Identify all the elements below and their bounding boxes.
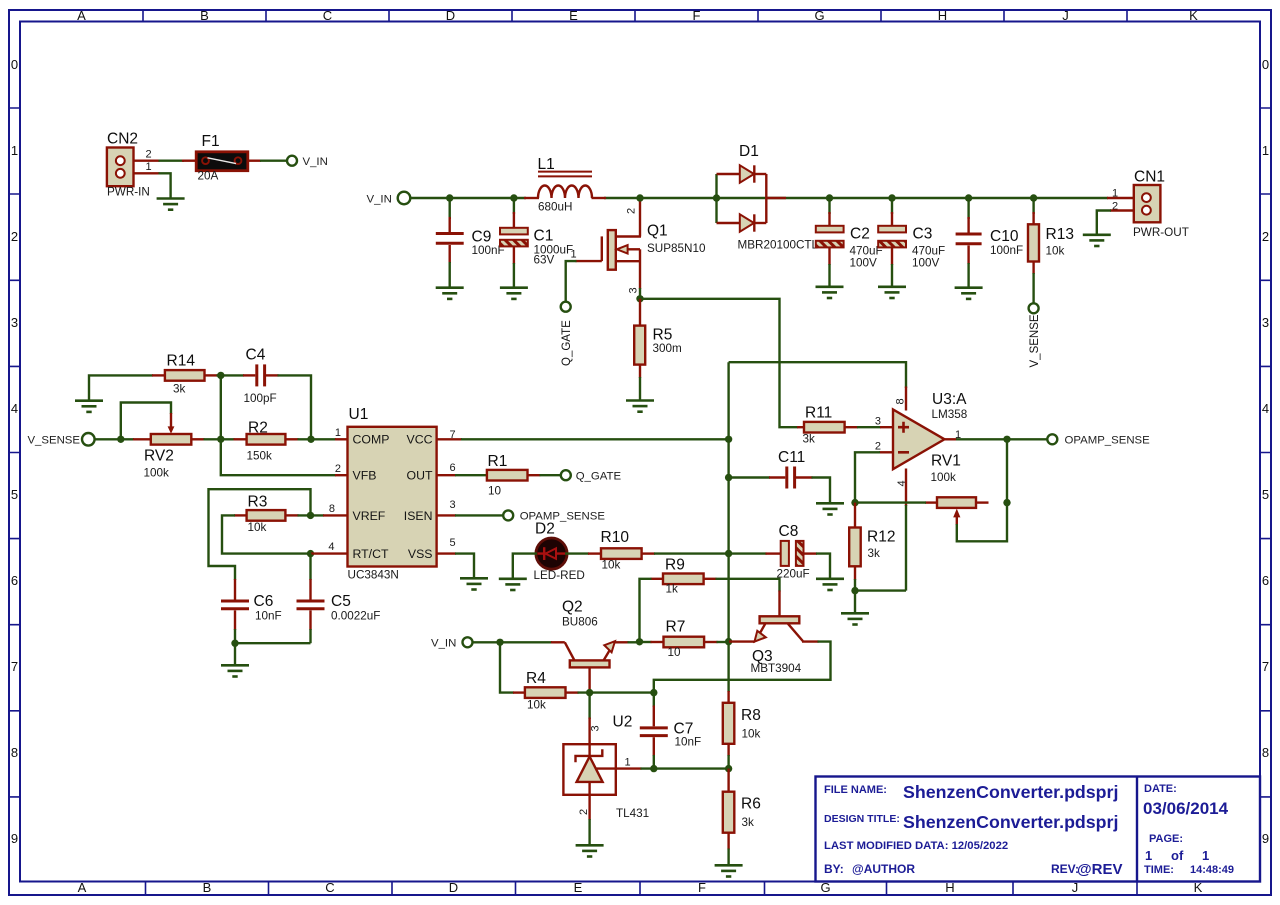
node V_SENSE/RV2 wiper	[117, 436, 124, 443]
op-amp U1 (UC3843N)	[348, 406, 437, 582]
svg-text:8: 8	[895, 398, 907, 404]
node output/RV1	[1003, 436, 1010, 443]
svg-text:DESIGN TITLE:: DESIGN TITLE:	[824, 813, 900, 825]
resistor R6	[723, 769, 761, 865]
svg-text:8: 8	[11, 745, 18, 760]
wire node to ground	[234, 643, 236, 664]
svg-text:MBT3904: MBT3904	[751, 662, 802, 675]
wire feedback vertical (R14/C4 to R2 row)	[220, 375, 222, 440]
wire pin2 to R12 top node	[855, 452, 880, 503]
node VCC/C11	[725, 474, 732, 481]
node R12 bottom	[851, 587, 858, 594]
svg-text:3: 3	[628, 287, 640, 293]
resistor R2	[234, 420, 299, 463]
svg-text:8: 8	[329, 503, 335, 515]
svg-text:0: 0	[11, 57, 18, 72]
node R12/RV1/pin2	[851, 499, 858, 506]
svg-text:ShenzenConverter.pdsprj: ShenzenConverter.pdsprj	[903, 812, 1118, 832]
svg-text:BU806: BU806	[562, 616, 598, 629]
ground (R6)	[715, 865, 743, 876]
ground (R12)	[841, 613, 869, 624]
svg-text:V_IN: V_IN	[367, 193, 392, 205]
svg-text:RV2: RV2	[144, 448, 174, 465]
node C7/U2 cathode	[650, 689, 657, 696]
ground (R5)	[626, 401, 654, 412]
svg-text:R6: R6	[741, 796, 761, 813]
svg-text:V_SENSE: V_SENSE	[1029, 314, 1041, 367]
svg-text:10nF: 10nF	[255, 610, 282, 623]
svg-text:B: B	[200, 8, 209, 23]
svg-text:100k: 100k	[144, 467, 170, 480]
U1 pin 2 stub	[335, 474, 348, 476]
svg-text:C6: C6	[254, 593, 274, 610]
U1 pin 4 stub	[311, 552, 348, 554]
wire ground to R14	[89, 375, 153, 400]
wire VFB row	[221, 439, 336, 475]
U1 pin 7 stub	[437, 438, 462, 440]
node VCC/pin7	[725, 436, 732, 443]
svg-text:4: 4	[11, 401, 18, 416]
wire RV1 left to R12 node	[855, 501, 926, 503]
svg-text:VFB: VFB	[353, 469, 377, 483]
fuse F1	[196, 133, 248, 183]
svg-text:1: 1	[1262, 143, 1269, 158]
svg-text:0.0022uF: 0.0022uF	[331, 610, 380, 623]
svg-text:@REV: @REV	[1077, 861, 1122, 878]
wire CN1.2 to ground	[1097, 211, 1111, 235]
svg-text:U3:A: U3:A	[932, 391, 967, 408]
svg-text:1: 1	[11, 143, 18, 158]
svg-text:2: 2	[626, 208, 638, 214]
wire Q1 source to node	[639, 288, 641, 299]
wire Q3 collector loop to Q2 base node	[654, 642, 831, 693]
resistor R1	[487, 453, 541, 498]
svg-text:3: 3	[590, 725, 602, 731]
svg-text:@AUTHOR: @AUTHOR	[852, 862, 915, 876]
svg-text:R11: R11	[805, 405, 832, 422]
wire pin3 to OPAMP_SENSE terminal	[455, 514, 503, 516]
svg-text:E: E	[569, 8, 578, 23]
svg-text:7: 7	[11, 659, 18, 674]
U1 pin 5 stub	[437, 552, 456, 554]
svg-text:C2: C2	[850, 226, 870, 243]
svg-text:F: F	[698, 880, 706, 895]
terminal Q_GATE (U1 out)	[561, 470, 571, 480]
terminal Q_GATE	[561, 302, 571, 312]
svg-text:6: 6	[11, 573, 18, 588]
ground (C6/C5)	[221, 665, 249, 676]
terminal V_SENSE (left)	[82, 433, 95, 446]
svg-text:2: 2	[875, 441, 881, 453]
svg-text:A: A	[77, 8, 86, 23]
svg-text:150k: 150k	[247, 450, 273, 463]
svg-text:OPAMP_SENSE: OPAMP_SENSE	[520, 511, 606, 523]
svg-text:Q1: Q1	[647, 223, 668, 240]
svg-text:2: 2	[335, 463, 341, 475]
wire main rail left	[411, 197, 527, 199]
transistor Q2 (BU806)	[551, 599, 629, 694]
svg-text:V_SENSE: V_SENSE	[27, 435, 80, 447]
svg-text:R13: R13	[1046, 226, 1074, 243]
svg-text:K: K	[1189, 8, 1198, 23]
svg-text:COMP: COMP	[353, 433, 390, 447]
voltage reference U2 (TL431)	[563, 693, 649, 845]
svg-text:C3: C3	[913, 226, 933, 243]
svg-text:3k: 3k	[868, 547, 881, 560]
resistor R13	[1028, 198, 1074, 303]
wire R3 right to VREF pin	[298, 514, 325, 516]
ground (U2)	[576, 845, 604, 856]
svg-text:100pF: 100pF	[244, 392, 277, 405]
svg-text:R1: R1	[488, 453, 508, 470]
svg-text:8: 8	[1262, 745, 1269, 760]
terminal V_IN (fuse output)	[287, 156, 297, 166]
svg-text:220uF: 220uF	[777, 568, 810, 581]
wire CN2.2 to F1	[159, 159, 185, 161]
svg-text:100V: 100V	[850, 257, 878, 270]
transistor Q3 (MBT3904)	[729, 591, 819, 675]
node rail/C3	[888, 194, 895, 201]
svg-text:4: 4	[896, 480, 908, 486]
potentiometer RV2	[144, 413, 205, 480]
potentiometer RV1	[925, 453, 989, 526]
svg-text:3k: 3k	[742, 816, 755, 829]
wire R9 right to Q3 base	[716, 579, 780, 592]
ground (CN2 pin1)	[157, 199, 185, 210]
svg-text:0: 0	[1262, 57, 1269, 72]
wire R1 to Q_GATE terminal	[540, 474, 561, 476]
svg-text:10k: 10k	[742, 728, 761, 741]
svg-text:B: B	[203, 880, 212, 895]
svg-text:E: E	[574, 880, 583, 895]
svg-text:R10: R10	[601, 529, 630, 546]
svg-text:REV:: REV:	[1051, 862, 1079, 876]
svg-text:10: 10	[668, 646, 682, 659]
node RT/CT	[307, 550, 314, 557]
svg-text:FILE NAME:: FILE NAME:	[824, 784, 887, 796]
wire source node to sense branch	[640, 299, 798, 427]
U3 pin 1 stub	[945, 438, 958, 440]
svg-text:LM358: LM358	[932, 408, 968, 421]
ground (C10)	[955, 288, 983, 299]
svg-text:2: 2	[1262, 229, 1269, 244]
terminal V_SENSE (bottom of R13)	[1029, 303, 1039, 313]
svg-text:10k: 10k	[248, 521, 267, 534]
resistor R14	[152, 353, 218, 396]
U3 pin 3 stub	[880, 426, 893, 428]
wire output to OPAMP_SENSE	[956, 438, 1047, 440]
svg-text:C: C	[323, 8, 332, 23]
node rail/C2	[826, 194, 833, 201]
wire Q1 gate to Q_GATE terminal	[566, 261, 577, 301]
wire pin6 to R1	[455, 474, 488, 476]
resistor R4	[513, 670, 579, 712]
resistor R5	[634, 299, 682, 400]
svg-text:63V: 63V	[534, 254, 555, 267]
node RV2/R2/VFB	[217, 436, 224, 443]
ground (CN1 pin2)	[1083, 235, 1111, 246]
svg-text:MBR20100CTL: MBR20100CTL	[738, 239, 819, 252]
connector CN2	[107, 131, 150, 199]
svg-text:2: 2	[146, 149, 152, 161]
svg-text:100nF: 100nF	[990, 244, 1023, 257]
svg-text:9: 9	[1262, 831, 1269, 846]
svg-text:10k: 10k	[527, 699, 546, 712]
wire C8 to ground	[816, 554, 830, 578]
wire C4 to COMP node	[278, 375, 312, 440]
wire D2 cathode to ground	[513, 554, 537, 578]
resistor R7	[651, 619, 718, 660]
svg-text:C10: C10	[990, 228, 1019, 245]
svg-text:DATE:: DATE:	[1144, 783, 1177, 795]
capacitor C3 (electrolytic)	[878, 198, 945, 286]
svg-text:CN1: CN1	[1134, 169, 1165, 186]
wire V_SENSE to RV2	[95, 438, 134, 440]
svg-text:U2: U2	[613, 714, 633, 731]
node VCC/R10/C8	[725, 550, 732, 557]
ground (C2)	[816, 287, 844, 298]
svg-text:RV1: RV1	[931, 453, 961, 470]
terminal OPAMP_SENSE (U1)	[503, 510, 513, 520]
wire pin5 to ground	[455, 554, 474, 578]
node R8/R6	[725, 765, 732, 772]
svg-text:R2: R2	[248, 420, 268, 437]
U3 pin 8 stub	[905, 387, 907, 411]
CN1 pin 2 stub	[1110, 209, 1134, 211]
capacitor C1 (electrolytic)	[500, 198, 573, 287]
wire R11 to op-amp pin3	[857, 426, 881, 428]
svg-text:OPAMP_SENSE: OPAMP_SENSE	[1065, 435, 1151, 447]
U3 pin 4 stub	[905, 469, 907, 507]
wire C5 to C6 ground node	[235, 642, 311, 644]
svg-text:ShenzenConverter.pdsprj: ShenzenConverter.pdsprj	[903, 782, 1118, 802]
wire VREF to C6 loop	[209, 489, 311, 580]
svg-text:PWR-IN: PWR-IN	[107, 186, 150, 199]
inductor L1	[524, 156, 606, 214]
wire R2 to U1 COMP	[298, 438, 337, 440]
svg-text:7: 7	[1262, 659, 1269, 674]
node R14/C4/feedback	[217, 372, 224, 379]
svg-text:4: 4	[1262, 401, 1269, 416]
F1 right stub	[248, 159, 261, 161]
wire R14 to C4	[217, 374, 245, 376]
svg-text:H: H	[938, 8, 947, 23]
svg-text:R12: R12	[867, 529, 895, 546]
U1 pin 8 stub	[323, 514, 348, 516]
svg-text:R3: R3	[248, 494, 268, 511]
ground (U1 VSS)	[460, 578, 488, 589]
U1 pin 3 stub	[437, 514, 456, 516]
svg-text:4: 4	[328, 541, 334, 553]
svg-text:F1: F1	[202, 133, 220, 150]
svg-text:PAGE:: PAGE:	[1149, 833, 1183, 845]
svg-text:1: 1	[1145, 848, 1152, 863]
svg-text:C4: C4	[246, 347, 266, 364]
transistor Q1 (MOSFET SUP85N10)	[576, 202, 706, 290]
resistor R11	[797, 405, 858, 446]
node C6/C5 ground	[231, 640, 238, 647]
svg-text:03/06/2014: 03/06/2014	[1143, 799, 1229, 818]
ground (C1)	[500, 288, 528, 299]
wire Q2 emitter to node	[628, 641, 641, 643]
svg-text:ISEN: ISEN	[404, 509, 433, 523]
svg-text:G: G	[814, 8, 824, 23]
ground (C9)	[436, 288, 464, 299]
svg-text:D: D	[449, 880, 458, 895]
node Q2/R9/R7	[636, 638, 643, 645]
svg-text:3: 3	[450, 499, 456, 511]
svg-text:C11: C11	[778, 449, 805, 466]
svg-text:1: 1	[146, 161, 152, 173]
svg-text:R9: R9	[665, 557, 685, 574]
node rail/Q1 drain	[636, 194, 643, 201]
svg-text:R8: R8	[741, 707, 761, 724]
svg-text:3k: 3k	[803, 433, 816, 446]
node R2/C4/COMP	[307, 436, 314, 443]
svg-text:D: D	[446, 8, 455, 23]
wire node to ground	[854, 591, 856, 613]
node rail/D1	[713, 194, 720, 201]
connector CN1	[1133, 169, 1189, 240]
svg-text:R4: R4	[526, 670, 546, 687]
svg-text:100k: 100k	[931, 471, 957, 484]
svg-text:CN2: CN2	[107, 131, 138, 148]
wire RV1 wiper loop	[957, 503, 1007, 542]
svg-text:10: 10	[488, 485, 502, 498]
node rail/C1	[510, 194, 517, 201]
svg-text:Q2: Q2	[562, 599, 583, 616]
svg-text:1: 1	[571, 249, 577, 261]
svg-text:3k: 3k	[173, 383, 186, 396]
node RV1 right	[1003, 499, 1010, 506]
wire output node down to RV1 right	[1006, 439, 1008, 503]
wire R4 to Q2 base node	[578, 691, 655, 693]
wire main rail right	[604, 197, 1108, 199]
wire VCC to op-amp pin 8	[729, 362, 906, 388]
svg-text:1: 1	[1202, 848, 1209, 863]
resistor R8	[723, 691, 761, 770]
wire R7 to VCC trunk node	[717, 641, 730, 643]
resistor R10	[588, 529, 655, 572]
svg-text:20A: 20A	[198, 170, 219, 183]
svg-text:LED-RED: LED-RED	[534, 569, 585, 582]
diode D1 (MBR20100CTL dual)	[717, 143, 819, 252]
svg-text:9: 9	[11, 831, 18, 846]
wire R9 left to Q2 emitter node	[640, 579, 652, 642]
svg-text:PWR-OUT: PWR-OUT	[1133, 226, 1189, 239]
svg-text:C: C	[325, 880, 334, 895]
svg-text:Q_GATE: Q_GATE	[576, 470, 622, 482]
wire F1 to V_IN terminal	[260, 159, 287, 161]
terminal V_IN (main rail)	[398, 192, 411, 205]
capacitor C8 (electrolytic)	[729, 523, 817, 581]
svg-text:1: 1	[625, 757, 631, 769]
svg-text:C8: C8	[779, 523, 799, 540]
svg-text:RT/CT: RT/CT	[353, 547, 389, 561]
svg-text:10k: 10k	[1046, 245, 1065, 258]
svg-text:2: 2	[11, 229, 18, 244]
capacitor C4	[243, 347, 279, 406]
svg-text:R14: R14	[167, 353, 196, 370]
resistor R9	[651, 557, 717, 596]
ground (C8)	[816, 579, 844, 590]
svg-text:F: F	[693, 8, 701, 23]
node rail/C9	[446, 194, 453, 201]
wire node down to R4	[500, 642, 514, 692]
wire R12 bottom to op-amp pin4	[855, 589, 906, 591]
node rail/R13	[1030, 194, 1037, 201]
wire VCC vertical trunk	[727, 362, 729, 692]
resistor R3	[234, 494, 299, 535]
svg-text:R7: R7	[666, 619, 686, 636]
wire D2 anode to R10	[565, 552, 589, 554]
svg-text:6: 6	[450, 462, 456, 474]
svg-text:10k: 10k	[602, 559, 621, 572]
CN1 pin 1 stub	[1107, 197, 1134, 199]
node V_IN/R4	[496, 639, 503, 646]
svg-text:U1: U1	[349, 406, 369, 423]
RV2 left stub	[133, 438, 152, 440]
svg-text:D1: D1	[739, 143, 759, 160]
wire RV2 wiper loop	[121, 403, 171, 440]
svg-text:100V: 100V	[912, 257, 940, 270]
capacitor C5	[297, 554, 381, 644]
svg-text:BY:: BY:	[824, 862, 844, 876]
svg-text:6: 6	[1262, 573, 1269, 588]
svg-text:VSS: VSS	[408, 547, 433, 561]
terminal V_IN (bottom)	[463, 637, 473, 647]
svg-text:V_IN: V_IN	[431, 638, 456, 650]
svg-text:SUP85N10: SUP85N10	[647, 242, 706, 255]
wire U2 ref to R8/R6 node	[641, 767, 730, 769]
svg-text:2: 2	[578, 809, 590, 815]
svg-text:VCC: VCC	[407, 433, 433, 447]
svg-text:3: 3	[11, 315, 18, 330]
svg-text:A: A	[78, 880, 87, 895]
svg-text:TL431: TL431	[616, 807, 649, 820]
resistor R12	[849, 503, 895, 592]
node Q2 base/R4	[586, 689, 593, 696]
svg-text:680uH: 680uH	[538, 201, 572, 214]
capacitor C11	[729, 449, 813, 489]
svg-text:VREF: VREF	[353, 509, 386, 523]
svg-text:UC3843N: UC3843N	[348, 569, 399, 582]
svg-text:OUT: OUT	[407, 469, 433, 483]
ground (R14 left)	[75, 401, 103, 412]
svg-text:5: 5	[11, 487, 18, 502]
capacitor C10	[956, 198, 1024, 287]
capacitor C7	[640, 693, 701, 769]
svg-text:Q_GATE: Q_GATE	[561, 320, 573, 366]
svg-text:300m: 300m	[653, 342, 682, 355]
svg-text:D2: D2	[535, 521, 555, 538]
node VCC/R7/Q3	[725, 638, 732, 645]
svg-text:TIME:: TIME:	[1144, 864, 1174, 876]
svg-text:of: of	[1171, 848, 1184, 863]
ground (C11)	[816, 503, 844, 514]
TITLEBLOCK	[816, 777, 1261, 882]
terminal OPAMP_SENSE (op-amp out)	[1047, 434, 1057, 444]
node Q1 source	[636, 295, 643, 302]
svg-text:5: 5	[1262, 487, 1269, 502]
wire CN2.1 to ground	[159, 173, 171, 198]
svg-text:14:48:49: 14:48:49	[1190, 864, 1234, 876]
node VREF	[307, 512, 314, 519]
svg-text:5: 5	[450, 537, 456, 549]
U1 pin 1 stub	[335, 438, 348, 440]
svg-text:3: 3	[1262, 315, 1269, 330]
node rail/C10	[965, 194, 972, 201]
